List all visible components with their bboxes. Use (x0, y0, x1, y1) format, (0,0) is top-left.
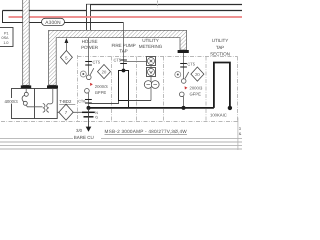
red feeder wire (9, 16, 243, 18)
ground conductor with arrow (86, 108, 92, 132)
wire between meters (150, 66, 152, 68)
node utility tap (228, 106, 232, 110)
svg-text:&: & (239, 131, 242, 136)
svg-text:T-BD2: T-BD2 (59, 99, 72, 104)
conduit riser (hatched, left) (23, 0, 30, 85)
node bus utility breaker (182, 106, 186, 110)
dashed divider metering/breaker (163, 57, 165, 122)
right edge reference line (237, 118, 239, 151)
svg-text:CT6: CT6 (78, 99, 85, 103)
svg-text:METERING: METERING (139, 44, 163, 49)
feeder arrow into busduct (65, 38, 69, 51)
red trip marker utility (185, 86, 188, 89)
breaker tag diamond 20 house (98, 65, 111, 79)
transformer windings (43, 89, 53, 113)
ground bar G (84, 116, 94, 118)
wire fire pump drop from A300N (123, 23, 125, 71)
svg-text:GFPE: GFPE (95, 90, 107, 95)
wire metering to bus level (129, 100, 152, 102)
grade line 4 (0, 148, 242, 150)
main bus (89, 107, 214, 109)
dashed switchboard enclosure top (78, 56, 238, 58)
fire pump tap switch rectangle (119, 71, 129, 101)
utility tap loop (214, 63, 230, 108)
wire A300N left segment (2, 22, 42, 24)
breaker utility: contacts and blade (181, 79, 186, 84)
grade line 3 (0, 145, 242, 147)
wire utility breaker drop (183, 53, 185, 79)
breaker house: contacts and blade (87, 75, 92, 80)
svg-text:CT5: CT5 (93, 59, 101, 64)
panel box SP1 (top-left, clipped) (0, 28, 13, 47)
dashed divider left edge (77, 55, 79, 122)
CT5 ticks fire pump (120, 59, 127, 61)
svg-text:20: 20 (195, 72, 200, 77)
dashed divider firepump/metering (136, 57, 138, 122)
relay circle house (80, 71, 86, 77)
meter square 2 (147, 68, 156, 77)
wire metering feed (124, 61, 147, 63)
svg-text:20: 20 (102, 69, 107, 74)
node tag A300N (42, 18, 65, 25)
meter square 1 (147, 57, 156, 66)
busduct hatched band with legs (49, 30, 187, 85)
svg-text:GFPE: GFPE (190, 92, 202, 97)
breaker tag diamond 20 utility (191, 67, 204, 81)
svg-text:UTILITY: UTILITY (142, 38, 158, 43)
svg-text:2000/3: 2000/3 (95, 84, 108, 89)
wire below breaker house (88, 93, 90, 108)
meter circles pair (144, 77, 159, 101)
dashed divider house/firepump (111, 57, 113, 122)
svg-text:HOUSE: HOUSE (82, 39, 98, 44)
svg-text:G: G (95, 116, 98, 120)
CT5 ticks utility (180, 63, 187, 65)
wire rect right leg to bus (128, 101, 130, 108)
svg-text:TAP: TAP (216, 45, 224, 50)
grade line 2 (0, 141, 242, 143)
red trip marker house (90, 83, 93, 86)
node main bus left (87, 106, 91, 110)
label 4000/3 (4, 98, 18, 104)
dashed divider breaker/utilitytap (205, 57, 207, 122)
wire A300N right segment (65, 22, 124, 24)
svg-text:CT5: CT5 (113, 58, 121, 63)
CT6 ticks (85, 99, 92, 101)
CT5 ticks house (85, 61, 92, 63)
node fire pump tap (122, 69, 126, 73)
wire top bus L1 (86, 4, 242, 6)
svg-text:0SA: 0SA (2, 36, 10, 40)
feeder tag diamond 7 (59, 104, 73, 120)
transformer primary elbow (22, 89, 42, 107)
transformer enclosure (12, 89, 58, 119)
dashed divider right edge (237, 57, 239, 122)
wire house drop (88, 38, 90, 75)
svg-text:3/0: 3/0 (76, 128, 83, 133)
svg-text:UTILITY: UTILITY (212, 38, 228, 43)
svg-text:BARE CU: BARE CU (74, 135, 94, 140)
svg-text:POWER: POWER (81, 45, 99, 50)
match-line tick (157, 1, 159, 8)
svg-text:100KAIC: 100KAIC (210, 112, 227, 117)
busduct cap utility tap (178, 50, 189, 53)
svg-text:1.0: 1.0 (3, 41, 8, 45)
svg-text:MSB-2 3000AMP - 480/277V,3Ø,4: MSB-2 3000AMP - 480/277V,3Ø,4W (105, 129, 188, 134)
neutral wire transformer to switchboard (57, 111, 82, 113)
svg-text:A300N: A300N (45, 20, 61, 26)
feeder tag diamond 5 (60, 51, 72, 65)
svg-text:P1: P1 (4, 32, 9, 36)
svg-text:4000/3: 4000/3 (5, 99, 19, 104)
wire step vertical (2, 11, 4, 23)
neutral wire to fire pump section (89, 101, 119, 104)
svg-text:N: N (95, 111, 98, 115)
grade line 1 (0, 138, 242, 140)
dashed enclosure bottom (1, 121, 238, 123)
svg-text:CT5: CT5 (187, 62, 195, 67)
busduct cap left riser (21, 85, 31, 88)
service riser double line into busduct (86, 4, 91, 30)
svg-text:2000/3: 2000/3 (190, 86, 203, 91)
relay circle utility (175, 72, 181, 78)
wire below breaker utility (183, 97, 185, 108)
neutral bar N (82, 111, 95, 113)
wire bus L2 (3, 10, 243, 12)
busduct cap transformer secondary (47, 85, 58, 88)
svg-text:SECTION: SECTION (210, 52, 230, 57)
